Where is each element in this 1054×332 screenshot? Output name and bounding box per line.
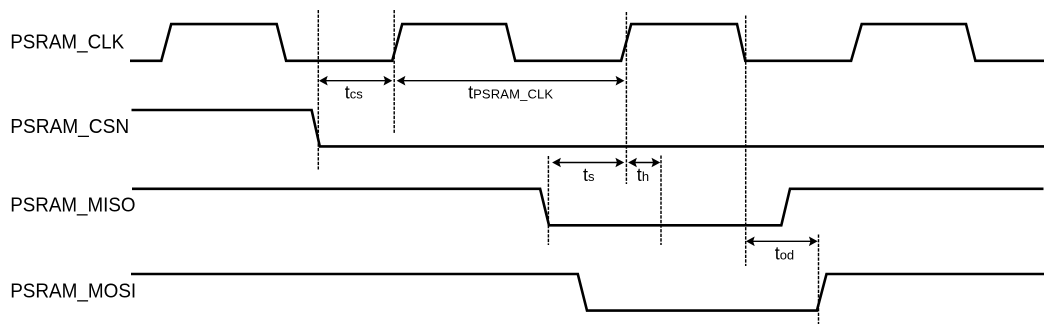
- dashed guide line at MOSI rise (x=818): [818, 235, 820, 325]
- dashed guide line at CLK rise 2 (x=394): [393, 10, 395, 134]
- svg-text:tPSRAM_CLK: tPSRAM_CLK: [468, 83, 553, 103]
- dimension arrow tPSRAM_CLK: [397, 76, 625, 86]
- PSRAM_MOSI waveform: [131, 274, 1044, 311]
- svg-text:PSRAM_MOSI: PSRAM_MOSI: [10, 280, 136, 302]
- dimension arrow tod: [746, 237, 818, 247]
- svg-text:PSRAM_MISO: PSRAM_MISO: [10, 195, 135, 217]
- dimension arrow tcs: [319, 76, 392, 86]
- dashed guide line at CSN fall (x=318): [317, 10, 319, 170]
- svg-text:PSRAM_CLK: PSRAM_CLK: [10, 31, 124, 53]
- svg-text:PSRAM_CSN: PSRAM_CSN: [10, 116, 129, 138]
- svg-text:th: th: [637, 165, 649, 185]
- dimension arrow th: [628, 158, 660, 168]
- dashed guide line after CLK rise 3 (x=661): [660, 156, 662, 246]
- svg-text:ts: ts: [583, 165, 595, 185]
- dashed guide line at CLK fall 3 (x=746): [745, 16, 747, 267]
- svg-text:tod: tod: [775, 243, 794, 263]
- dimension arrow ts: [552, 158, 624, 168]
- PSRAM_CLK waveform: [130, 24, 1044, 61]
- svg-text:tcs: tcs: [345, 83, 364, 103]
- dashed guide line at MISO fall (x=548): [547, 156, 549, 245]
- dashed guide line at CLK rise 3 (x=626): [625, 12, 627, 184]
- PSRAM_MISO waveform: [132, 189, 1044, 226]
- PSRAM_CSN waveform: [132, 110, 1045, 146]
